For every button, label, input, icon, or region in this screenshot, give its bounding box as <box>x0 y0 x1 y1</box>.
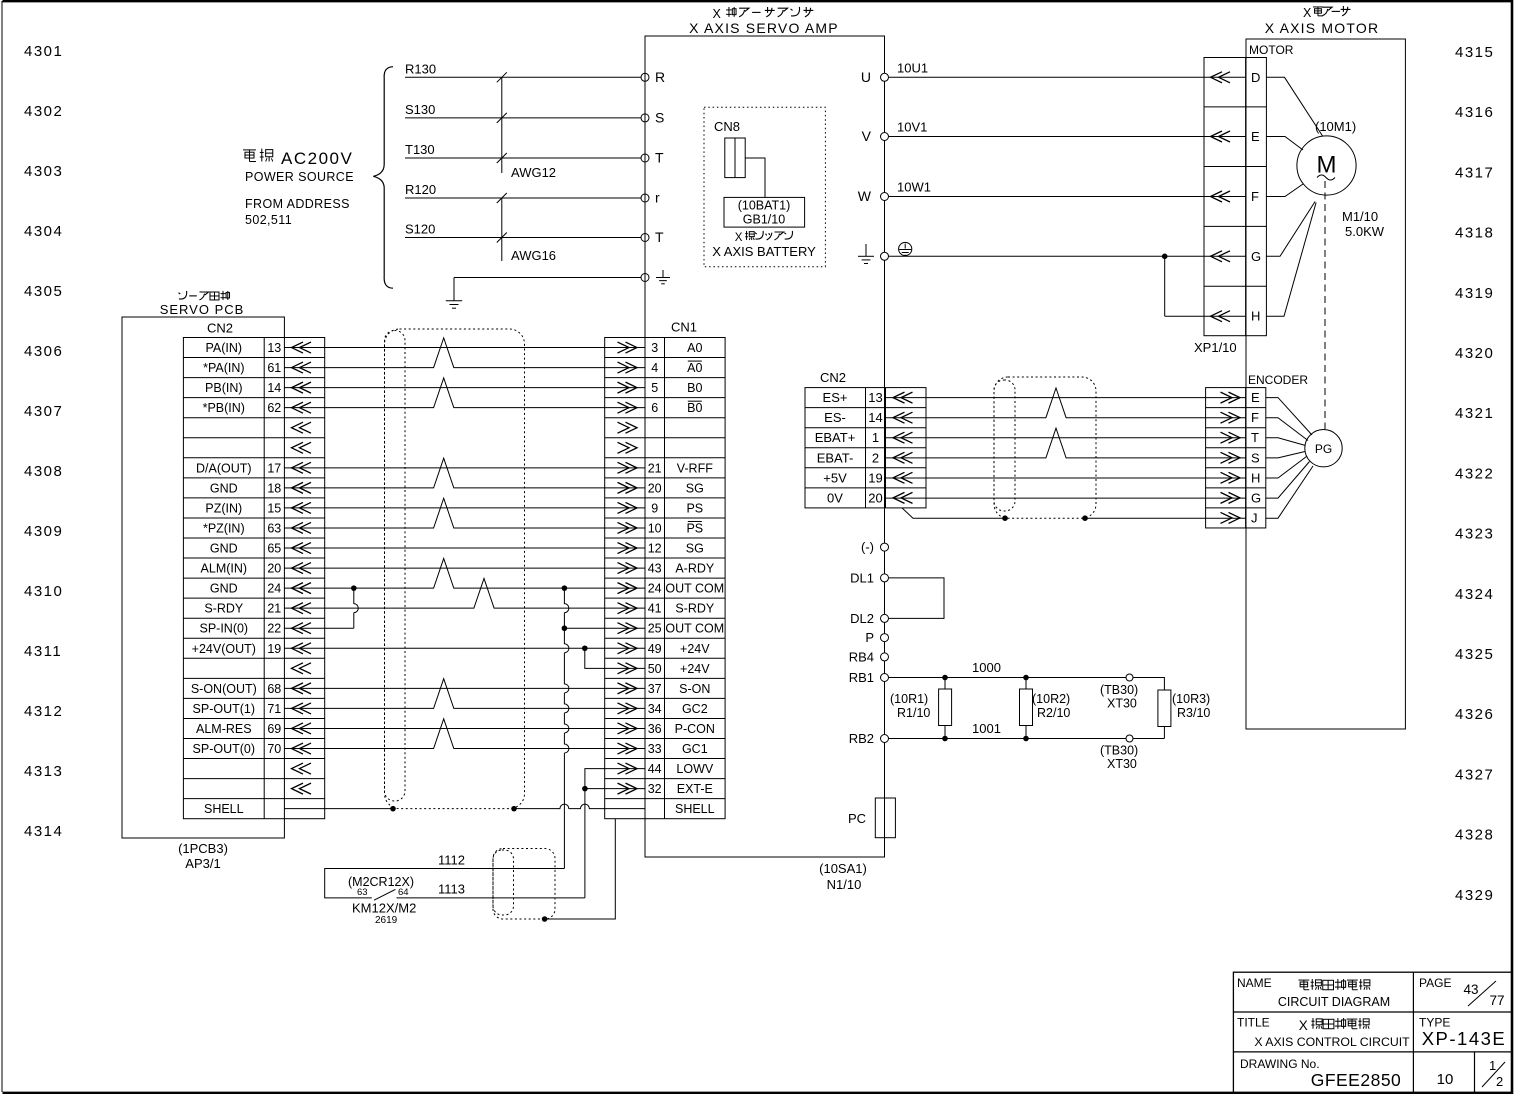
wire PB 14-5 <box>284 387 645 389</box>
svg-text:63: 63 <box>267 521 281 535</box>
svg-text:4318: 4318 <box>1455 225 1494 242</box>
svg-text:34: 34 <box>648 702 662 716</box>
CN2 PCB connector table <box>183 338 324 819</box>
wire G to motor <box>1266 202 1315 257</box>
svg-text:4325: 4325 <box>1455 646 1494 663</box>
svg-text:25: 25 <box>648 622 662 636</box>
svg-text:9: 9 <box>651 501 658 515</box>
svg-text:S120: S120 <box>405 222 435 237</box>
svg-text:S-RDY: S-RDY <box>675 602 715 616</box>
svg-text:4301: 4301 <box>24 43 63 60</box>
svg-text:H: H <box>1251 309 1260 324</box>
svg-text:14: 14 <box>267 381 281 395</box>
wire SHELL right <box>514 804 645 809</box>
junction GND24 left <box>351 585 357 591</box>
svg-text:5.0KW: 5.0KW <box>1345 224 1385 239</box>
servo amp box <box>645 36 885 857</box>
svg-text:TITLE: TITLE <box>1237 1016 1270 1030</box>
svg-text:R120: R120 <box>405 182 436 197</box>
wire D to motor <box>1266 77 1322 136</box>
svg-text:SP-OUT(0): SP-OUT(0) <box>193 742 256 756</box>
svg-text:DRAWING No.: DRAWING No. <box>1240 1057 1320 1071</box>
earth symbol right <box>865 244 867 256</box>
DL1-DL2 jumper <box>889 578 944 619</box>
svg-text:CN8: CN8 <box>714 119 740 134</box>
motor connector XP1/10 table <box>1204 58 1266 336</box>
svg-text:20: 20 <box>267 562 281 576</box>
terminal T <box>641 154 649 162</box>
wire E to motor <box>1266 137 1303 151</box>
svg-text:ES-: ES- <box>824 410 846 425</box>
svg-text:4328: 4328 <box>1455 827 1494 844</box>
svg-text:44: 44 <box>648 762 662 776</box>
svg-text:(10R2): (10R2) <box>1032 692 1070 706</box>
svg-text:EBAT+: EBAT+ <box>815 430 856 445</box>
svg-text:1000: 1000 <box>972 660 1001 675</box>
svg-text:2619: 2619 <box>375 915 398 926</box>
svg-text:T: T <box>1251 430 1259 445</box>
svg-text:(TB30): (TB30) <box>1100 744 1138 758</box>
svg-text:6: 6 <box>651 401 658 415</box>
svg-text:SP-IN(0): SP-IN(0) <box>199 622 248 636</box>
svg-text:*PB(IN): *PB(IN) <box>203 401 245 415</box>
svg-text:20: 20 <box>648 481 662 495</box>
encoder PG <box>1305 430 1342 467</box>
svg-text:F: F <box>1251 189 1259 204</box>
svg-text:S-RDY: S-RDY <box>204 602 244 616</box>
svg-text:GFEE2850: GFEE2850 <box>1311 1070 1402 1090</box>
svg-text:32: 32 <box>648 782 662 796</box>
svg-text:GND: GND <box>210 582 238 596</box>
encoder cable shield <box>994 377 1096 518</box>
svg-text:S-ON(OUT): S-ON(OUT) <box>191 682 257 696</box>
svg-text:4311: 4311 <box>24 643 62 660</box>
wire SP-OUT0 70-33 <box>284 719 645 749</box>
shield drain wire encoder <box>902 508 1005 518</box>
wire S-RDY 21-41 <box>284 578 645 608</box>
X axis motor box <box>1246 39 1405 729</box>
junction GND24 right <box>562 585 568 591</box>
svg-text:X AXIS SERVO AMP: X AXIS SERVO AMP <box>689 20 839 36</box>
svg-text:FROM ADDRESS: FROM ADDRESS <box>245 197 350 211</box>
cable marker AWG16 <box>501 198 503 261</box>
svg-text:E: E <box>1251 390 1260 405</box>
svg-text:0V: 0V <box>827 490 843 505</box>
svg-text:5: 5 <box>651 381 658 395</box>
svg-text:24: 24 <box>648 582 662 596</box>
wire GND 65-12 <box>284 547 645 549</box>
svg-text:50: 50 <box>648 662 662 676</box>
wire SP-OUT1 71-34 <box>284 679 645 709</box>
svg-text:N1/10: N1/10 <box>827 877 862 892</box>
CN8 dashed enclosure <box>704 107 825 266</box>
svg-text:EXT-E: EXT-E <box>677 782 713 796</box>
svg-text:1: 1 <box>1489 1058 1496 1073</box>
svg-text:F: F <box>1251 410 1259 425</box>
svg-text:W: W <box>858 188 872 204</box>
svg-text:14: 14 <box>868 410 882 425</box>
svg-text:RB4: RB4 <box>849 649 874 664</box>
svg-text:A0: A0 <box>687 341 702 355</box>
svg-text:3: 3 <box>651 341 658 355</box>
svg-text:XP1/10: XP1/10 <box>1194 340 1237 355</box>
svg-text:1112: 1112 <box>438 853 465 868</box>
svg-text:10U1: 10U1 <box>897 60 928 75</box>
svg-text:22: 22 <box>267 622 281 636</box>
svg-text:*PA(IN): *PA(IN) <box>203 361 244 375</box>
svg-text:13: 13 <box>267 341 281 355</box>
svg-text:r: r <box>655 190 660 206</box>
svg-text:10V1: 10V1 <box>897 120 927 135</box>
svg-text:4317: 4317 <box>1455 164 1494 181</box>
wire GND 24-24 <box>284 558 645 588</box>
svg-text:4310: 4310 <box>24 583 63 600</box>
svg-text:4312: 4312 <box>24 703 63 720</box>
CN1 connector table <box>605 338 725 819</box>
svg-text:J: J <box>1251 510 1258 525</box>
svg-text:77: 77 <box>1489 993 1504 1008</box>
svg-text:20: 20 <box>868 490 882 505</box>
svg-text:4309: 4309 <box>24 523 63 540</box>
svg-text:GND: GND <box>210 481 238 495</box>
svg-text:24: 24 <box>267 582 281 596</box>
svg-text:(M2CR12X): (M2CR12X) <box>348 875 414 889</box>
encoder cable wires <box>886 397 1246 399</box>
svg-text:4303: 4303 <box>24 163 63 180</box>
svg-text:S-ON: S-ON <box>679 682 710 696</box>
svg-text:PAGE: PAGE <box>1419 976 1451 990</box>
svg-text:X: X <box>1299 1018 1308 1033</box>
svg-text:4321: 4321 <box>1455 405 1494 422</box>
svg-text:ES+: ES+ <box>823 390 848 405</box>
protective earth symbol <box>899 242 912 255</box>
svg-text:M1/10: M1/10 <box>1342 209 1378 224</box>
svg-text:4302: 4302 <box>24 103 63 120</box>
svg-text:P: P <box>865 630 874 645</box>
svg-text:PB(IN): PB(IN) <box>205 381 243 395</box>
border frame <box>3 0 1514 2</box>
svg-text:SHELL: SHELL <box>675 802 715 816</box>
servo PCB box (1PCB3) <box>122 317 284 838</box>
svg-text:GND: GND <box>210 542 238 556</box>
terminal S <box>641 114 649 122</box>
svg-text:DL2: DL2 <box>850 611 874 626</box>
junction PE-H <box>1162 253 1168 259</box>
vertical bus to 1112 <box>564 588 569 868</box>
terminal PE left <box>641 274 649 282</box>
terminal R <box>641 73 649 81</box>
terminal T <box>641 234 649 242</box>
ground wire from PE <box>454 277 641 279</box>
brace <box>373 67 393 289</box>
svg-text:A-RDY: A-RDY <box>675 562 715 576</box>
svg-text:CN2: CN2 <box>207 321 233 336</box>
svg-text:X AXIS MOTOR: X AXIS MOTOR <box>1265 20 1380 36</box>
svg-text:AP3/1: AP3/1 <box>185 856 220 871</box>
svg-text:G: G <box>1251 249 1261 264</box>
svg-text:15: 15 <box>267 501 281 515</box>
svg-text:AWG16: AWG16 <box>511 248 556 263</box>
svg-text:33: 33 <box>648 742 662 756</box>
svg-text:PZ(IN): PZ(IN) <box>205 501 242 515</box>
svg-text:68: 68 <box>267 682 281 696</box>
svg-text:PS: PS <box>686 521 703 535</box>
wire LOWV 44 / EXT-E 32 <box>585 769 645 898</box>
wire ALM 20-43 <box>284 567 645 569</box>
svg-text:43: 43 <box>648 562 662 576</box>
svg-text:OUT COM: OUT COM <box>665 622 724 636</box>
svg-text:A0: A0 <box>687 361 702 375</box>
wire PA 13-3 <box>284 347 645 349</box>
right row numbers 4315-4329 <box>1455 44 1494 904</box>
svg-text:GC1: GC1 <box>682 742 708 756</box>
svg-text:21: 21 <box>267 602 281 616</box>
svg-text:19: 19 <box>868 470 882 485</box>
svg-text:G: G <box>1251 490 1261 505</box>
wire PZ 15-9 <box>284 507 645 509</box>
svg-text:71: 71 <box>267 702 281 716</box>
svg-text:RB1: RB1 <box>849 670 874 685</box>
terminal PE right <box>881 252 889 260</box>
svg-text:4: 4 <box>651 361 658 375</box>
svg-text:S: S <box>1251 450 1260 465</box>
svg-text:LOWV: LOWV <box>676 762 713 776</box>
svg-text:EBAT-: EBAT- <box>817 450 854 465</box>
svg-text:4315: 4315 <box>1455 44 1494 61</box>
svg-text:1113: 1113 <box>438 882 465 897</box>
vertical link 22-24 <box>354 588 359 628</box>
svg-text:ENCODER: ENCODER <box>1248 373 1308 387</box>
svg-text:1001: 1001 <box>972 721 1001 736</box>
svg-text:GB1/10: GB1/10 <box>743 213 785 227</box>
svg-text:4327: 4327 <box>1455 766 1494 783</box>
wire SHELL left <box>284 808 393 810</box>
svg-text:4304: 4304 <box>24 223 63 240</box>
svg-text:+5V: +5V <box>823 470 847 485</box>
svg-text:502,511: 502,511 <box>245 213 292 227</box>
svg-text:CN1: CN1 <box>671 320 697 335</box>
svg-text:SG: SG <box>686 542 704 556</box>
svg-text:SP-OUT(1): SP-OUT(1) <box>193 702 256 716</box>
svg-text:X: X <box>712 7 721 21</box>
svg-text:M: M <box>1317 152 1337 179</box>
svg-text:10: 10 <box>648 521 662 535</box>
svg-text:+24V: +24V <box>680 642 710 656</box>
shield drain bottom <box>542 916 548 922</box>
svg-text:D: D <box>1251 70 1260 85</box>
title block <box>1233 972 1512 1092</box>
wire *PB 62-6 <box>284 378 645 408</box>
wire *PZ 63-10 <box>284 498 645 528</box>
svg-text:U: U <box>861 69 871 85</box>
motor shaft to encoder <box>1324 181 1326 429</box>
svg-text:R2/10: R2/10 <box>1037 706 1070 720</box>
svg-text:4306: 4306 <box>24 343 63 360</box>
svg-text:61: 61 <box>267 361 281 375</box>
svg-text:XT30: XT30 <box>1107 757 1137 771</box>
svg-text:4308: 4308 <box>24 463 63 480</box>
resistor R3/10 (10R3) <box>1158 690 1171 727</box>
svg-text:B0: B0 <box>687 401 702 415</box>
wire +24V 19-49 <box>284 647 645 649</box>
svg-text:S130: S130 <box>405 102 435 117</box>
svg-text:D/A(OUT): D/A(OUT) <box>196 461 252 475</box>
svg-text:13: 13 <box>868 390 882 405</box>
svg-text:4326: 4326 <box>1455 706 1494 723</box>
wire to motor H <box>1164 256 1166 316</box>
wire S-ON 68-37 <box>284 687 645 689</box>
svg-text:R1/10: R1/10 <box>897 706 930 720</box>
svg-text:X: X <box>1303 6 1312 20</box>
svg-text:(10M1): (10M1) <box>1315 119 1356 134</box>
svg-text:2: 2 <box>1496 1074 1503 1089</box>
svg-text:2: 2 <box>872 450 879 465</box>
svg-text:(10BAT1): (10BAT1) <box>738 199 791 213</box>
svg-text:41: 41 <box>648 602 662 616</box>
svg-text:ALM(IN): ALM(IN) <box>201 562 248 576</box>
svg-text:ALM-RES: ALM-RES <box>196 722 252 736</box>
svg-text:36: 36 <box>648 722 662 736</box>
svg-text:P-CON: P-CON <box>675 722 715 736</box>
svg-text:E: E <box>1251 129 1260 144</box>
svg-text:62: 62 <box>267 401 281 415</box>
svg-text:4307: 4307 <box>24 403 63 420</box>
wire OUT COM 25 <box>564 627 645 629</box>
svg-text:SG: SG <box>686 481 704 495</box>
wire PE to motor G <box>889 255 1246 257</box>
svg-text:10: 10 <box>1437 1071 1454 1088</box>
svg-text:4305: 4305 <box>24 283 63 300</box>
svg-text:R: R <box>655 69 665 85</box>
svg-text:V: V <box>862 128 872 144</box>
encoder connector table <box>1206 388 1266 528</box>
wire +24V 50 <box>585 648 645 668</box>
svg-text:10W1: 10W1 <box>897 180 931 195</box>
svg-text:4316: 4316 <box>1455 104 1494 121</box>
svg-text:CIRCUIT DIAGRAM: CIRCUIT DIAGRAM <box>1278 995 1390 1009</box>
svg-text:PS: PS <box>686 501 703 515</box>
svg-text:V-RFF: V-RFF <box>677 461 713 475</box>
svg-text:MOTOR: MOTOR <box>1249 43 1294 57</box>
svg-text:4323: 4323 <box>1455 526 1494 543</box>
signal cable shield (CN2-CN1) <box>385 329 525 809</box>
left row numbers 4301-4314 <box>24 43 63 840</box>
svg-text:70: 70 <box>267 742 281 756</box>
svg-text:+24V(OUT): +24V(OUT) <box>192 642 256 656</box>
svg-text:KM12X/M2: KM12X/M2 <box>352 901 416 916</box>
svg-text:H: H <box>1251 470 1260 485</box>
svg-text:69: 69 <box>267 722 281 736</box>
svg-text:NAME: NAME <box>1237 976 1272 990</box>
svg-text:37: 37 <box>648 682 662 696</box>
svg-text:21: 21 <box>648 461 662 475</box>
connector CN2 amp side table <box>805 388 926 508</box>
svg-text:T: T <box>655 150 664 166</box>
svg-text:R3/10: R3/10 <box>1177 706 1210 720</box>
wire D/A 17-21 <box>284 467 645 469</box>
wire F to motor <box>1266 184 1303 197</box>
svg-text:19: 19 <box>267 642 281 656</box>
cable marker AWG12 <box>501 77 503 173</box>
wire *PA 61-4 <box>284 338 645 368</box>
svg-text:(1PCB3): (1PCB3) <box>178 841 228 856</box>
svg-text:4314: 4314 <box>24 823 63 840</box>
svg-text:PG: PG <box>1315 442 1332 456</box>
svg-text:+24V: +24V <box>680 662 710 676</box>
svg-text:XT30: XT30 <box>1107 697 1137 711</box>
svg-text:4324: 4324 <box>1455 586 1494 603</box>
svg-text:T130: T130 <box>405 142 435 157</box>
svg-text:SHELL: SHELL <box>204 802 244 816</box>
svg-text:4329: 4329 <box>1455 887 1494 904</box>
svg-text:RB2: RB2 <box>849 731 874 746</box>
wires encoder to PG <box>1266 398 1312 435</box>
battery GB1/10 (10BAT1) <box>724 197 805 227</box>
svg-text:(TB30): (TB30) <box>1100 683 1138 697</box>
svg-text:4313: 4313 <box>24 763 63 780</box>
svg-text:(10SA1): (10SA1) <box>819 861 867 876</box>
svg-text:(10R1): (10R1) <box>890 692 928 706</box>
svg-text:T: T <box>655 229 664 245</box>
svg-text:X AXIS CONTROL CIRCUIT: X AXIS CONTROL CIRCUIT <box>1254 1035 1410 1049</box>
svg-text:18: 18 <box>267 481 281 495</box>
svg-text:17: 17 <box>267 461 281 475</box>
svg-text:1: 1 <box>872 430 879 445</box>
junction +24V split <box>582 645 588 651</box>
wire SP-IN(0) 22 <box>284 627 353 629</box>
svg-text:DL1: DL1 <box>850 570 874 585</box>
svg-text:65: 65 <box>267 542 281 556</box>
svg-text:POWER SOURCE: POWER SOURCE <box>245 170 354 184</box>
resistor R1/10 (10R1) <box>944 678 946 690</box>
svg-text:AWG12: AWG12 <box>511 165 556 180</box>
svg-text:R130: R130 <box>405 61 436 76</box>
control cable shield <box>493 849 555 920</box>
svg-text:4320: 4320 <box>1455 345 1494 362</box>
svg-text:XP-143E: XP-143E <box>1422 1028 1507 1049</box>
power source label <box>243 149 256 151</box>
svg-text:4319: 4319 <box>1455 285 1494 302</box>
svg-text:S: S <box>655 109 664 125</box>
svg-text:(10R3): (10R3) <box>1172 692 1210 706</box>
ground symbol <box>446 300 462 302</box>
resistor R2/10 (10R2) <box>1025 678 1027 690</box>
svg-text:4322: 4322 <box>1455 465 1494 482</box>
terminal r <box>641 194 649 202</box>
wire CN8 to battery <box>745 158 765 197</box>
svg-text:PC: PC <box>848 811 866 826</box>
svg-text:OUT COM: OUT COM <box>665 582 724 596</box>
svg-text:(-): (-) <box>861 540 874 555</box>
wire H to motor <box>1266 203 1316 317</box>
svg-text:49: 49 <box>648 642 662 656</box>
motor M1/10 (10M1) <box>1297 136 1356 195</box>
svg-text:B0: B0 <box>687 381 702 395</box>
svg-text:GC2: GC2 <box>682 702 708 716</box>
wire ALM-RES 69-36 <box>284 727 645 729</box>
svg-text:CN2: CN2 <box>820 370 846 385</box>
svg-text:*PZ(IN): *PZ(IN) <box>203 521 245 535</box>
svg-text:AC200V: AC200V <box>281 149 353 168</box>
svg-text:X AXIS BATTERY: X AXIS BATTERY <box>712 244 816 259</box>
wire GND 18-20 <box>284 458 645 488</box>
svg-text:12: 12 <box>648 542 662 556</box>
earth symbol at PE terminal <box>662 270 664 278</box>
svg-text:SERVO PCB: SERVO PCB <box>160 302 245 317</box>
svg-text:PA(IN): PA(IN) <box>206 341 243 355</box>
svg-text:X: X <box>735 232 743 244</box>
svg-text:43: 43 <box>1463 982 1478 997</box>
